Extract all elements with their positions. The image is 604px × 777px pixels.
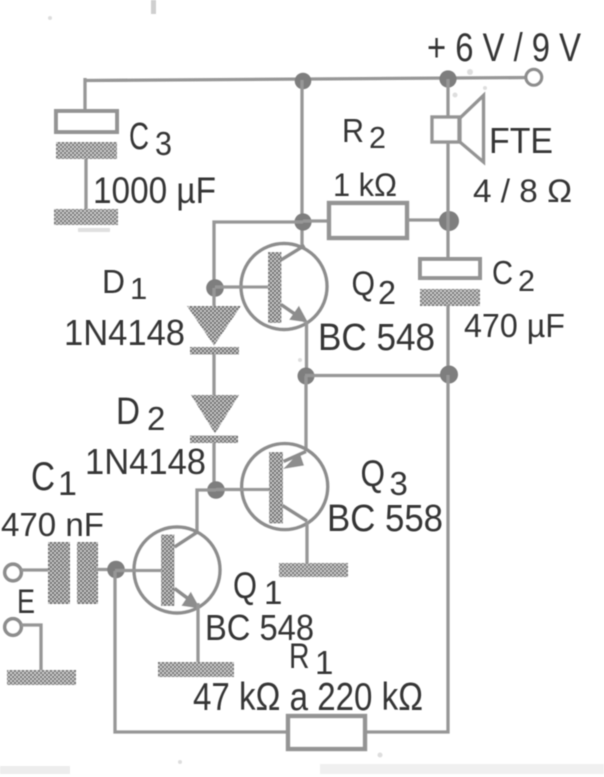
capacitor C3 plate top [56, 111, 117, 132]
scan noise specks [48, 16, 487, 764]
wire Q1 collector link [197, 490, 216, 532]
node R2 left junction [294, 213, 311, 230]
resistor R1 [288, 716, 365, 749]
diode D2 [191, 395, 239, 434]
node diode top junction [206, 279, 224, 297]
svg-text:D: D [116, 391, 140, 433]
svg-text:1000 µF: 1000 µF [93, 170, 216, 211]
svg-text:E: E [17, 583, 35, 621]
wire Q3 collector to ground [305, 521, 308, 564]
svg-text:Q: Q [233, 565, 257, 606]
transistor Q1 base bar [161, 535, 175, 607]
svg-text:4 / 8 Ω: 4 / 8 Ω [473, 173, 572, 209]
node Q1 base junction [107, 561, 125, 579]
svg-text:2: 2 [378, 274, 396, 311]
wire speaker lead [446, 79, 449, 118]
node mid rail right [440, 366, 458, 384]
wire input to C1 [21, 568, 48, 571]
transistor Q2 base bar [268, 252, 282, 323]
svg-text:1N4148: 1N4148 [85, 441, 206, 482]
ground Q1 [158, 662, 234, 677]
node Q3 base junction [207, 481, 225, 499]
svg-text:3: 3 [155, 125, 172, 162]
input terminal E [5, 564, 22, 581]
wire bottom rail [115, 571, 288, 732]
capacitor C1 plate right [77, 542, 98, 604]
svg-text:1 kΩ: 1 kΩ [333, 167, 397, 203]
wire Q2 base lead [215, 285, 268, 288]
ground Q3 [279, 563, 348, 577]
svg-text:D: D [102, 263, 125, 300]
wire D2 to node [212, 443, 215, 490]
transistor Q1 circle [134, 527, 220, 613]
wire right column and bottom right corner [365, 375, 448, 732]
capacitor C1 plate left [48, 542, 70, 604]
svg-text:470 µF: 470 µF [464, 307, 565, 344]
speaker FTE box [432, 117, 459, 142]
svg-text:1N4148: 1N4148 [64, 312, 185, 353]
wire Q3 base lead [216, 488, 269, 491]
wire Q1 base lead [115, 569, 161, 572]
svg-text:2: 2 [369, 120, 386, 155]
capacitor C2 plate bottom [420, 289, 480, 306]
transistor Q2 circle [241, 244, 327, 330]
node mid rail left [298, 368, 315, 385]
wire C3 top lead [83, 78, 86, 112]
svg-text:C: C [129, 116, 149, 158]
svg-text:2: 2 [147, 400, 165, 437]
transistor Q2 emitter diag [281, 305, 305, 322]
wire mid rail [305, 374, 448, 377]
transistor Q2 emitter arrow [289, 306, 308, 323]
wire terminal to input ground [21, 625, 41, 670]
transistor Q3 circle [242, 444, 328, 530]
svg-text:Q: Q [361, 453, 386, 494]
wire Q2 collector column [300, 80, 303, 247]
svg-text:Q: Q [352, 265, 376, 303]
svg-text:1: 1 [264, 574, 282, 611]
transistor Q3 collector diag [283, 506, 308, 522]
diode D1 [212, 288, 215, 306]
transistor Q1 emitter diag [175, 589, 199, 607]
node top rail / Q2 column [295, 73, 312, 90]
resistor R2 [329, 203, 407, 238]
svg-text:+ 6 V / 9 V: + 6 V / 9 V [427, 26, 581, 70]
svg-text:3: 3 [390, 465, 408, 502]
wire Q2 emitter column [305, 321, 308, 376]
svg-text:1: 1 [58, 465, 77, 503]
wire Q1 emitter to ground [196, 603, 199, 662]
speaker FTE horn [460, 96, 484, 163]
scan artifact bottom band [320, 764, 604, 774]
svg-text:R: R [342, 112, 364, 149]
wire C1 to Q1 base [95, 568, 115, 571]
transistor Q2 collector diag [281, 246, 305, 261]
svg-text:BC 558: BC 558 [327, 498, 443, 540]
transistor Q3 emitter diag [284, 452, 307, 462]
wire R2 right lead [407, 218, 448, 221]
svg-text:FTE: FTE [489, 120, 553, 161]
wire top rail [85, 78, 534, 81]
svg-text:C: C [492, 254, 513, 291]
wire C2 bottom lead [446, 305, 449, 375]
node R2 right junction [439, 211, 459, 231]
svg-text:470 nF: 470 nF [1, 506, 104, 543]
svg-text:47 kΩ a 220 kΩ: 47 kΩ a 220 kΩ [193, 676, 423, 719]
svg-text:C: C [31, 455, 55, 499]
transistor Q3 emitter arrow (PNP, points to bar) [283, 453, 304, 470]
supply terminal [526, 69, 542, 85]
wire Q3 emitter column [304, 376, 307, 452]
capacitor C2 plate top [420, 259, 480, 278]
transistor Q1 collector diag [175, 532, 198, 547]
ground terminal [5, 619, 22, 636]
ground C3 [54, 209, 118, 225]
node top rail / speaker column [439, 70, 456, 87]
wire D1-D2 [212, 354, 215, 395]
svg-text:BC 548: BC 548 [318, 317, 435, 359]
svg-text:1: 1 [130, 271, 147, 306]
wire R2 left lead [303, 219, 329, 222]
transistor Q1 emitter arrow [182, 592, 201, 609]
transistor Q3 base bar [269, 452, 283, 524]
wire speaker to C2 [446, 142, 449, 259]
svg-text:R: R [289, 637, 310, 676]
wire C3 bottom lead [84, 159, 87, 210]
capacitor C3 plate bottom [56, 142, 117, 159]
svg-text:2: 2 [518, 265, 535, 298]
wire Q2 base link [214, 222, 303, 288]
ground input [7, 670, 76, 685]
scan artifact top tick [151, 0, 156, 14]
